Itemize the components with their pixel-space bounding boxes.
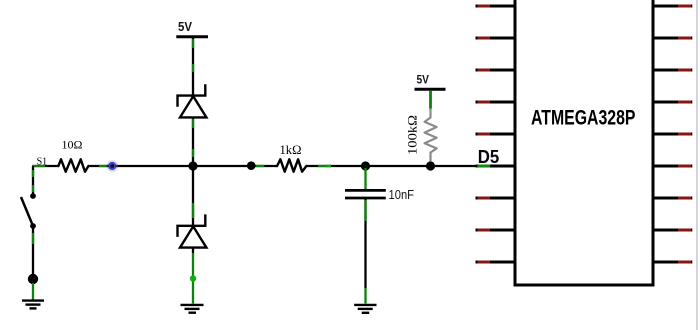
- wire: green dash on switch top pin: [32, 170, 34, 177]
- junction A: node dot on main wire at diode branch: [188, 161, 197, 170]
- switch S1: [21, 193, 36, 229]
- window edge / scrollbar line at right: [696, 0, 698, 330]
- junction: bendpoint dot above switch ground: [28, 274, 38, 284]
- wire: green pin segment right of junction B: [256, 165, 265, 167]
- svg-text:10Ω: 10Ω: [62, 138, 83, 152]
- wire: green pin below top diode: [192, 119, 194, 128]
- wire: junction A down to bottom diode: [192, 166, 194, 226]
- wire: green pin segment after 10ohm resistor: [99, 165, 108, 167]
- wire: green pin below pull-up 5V bar: [429, 91, 432, 109]
- junction B: bendpoint dot left of 1k resistor: [247, 161, 256, 170]
- wire: vertical drop from corner to switch S1: [32, 166, 34, 196]
- diode D1 top clamp (zener, cathode up): [178, 84, 207, 117]
- wire: green pin above top diode: [192, 64, 194, 72]
- wire: bottom diode to ground (mostly green): [192, 248, 194, 253]
- IC U1 ATMEGA328P body: [515, 0, 653, 285]
- junction D: node dot where pull-up meets main wire: [426, 161, 435, 170]
- wire: green pin of switch ground: [32, 283, 34, 300]
- ground: diode branch ground symbol: [181, 305, 204, 313]
- ground: capacitor ground symbol: [354, 305, 376, 313]
- svg-text:D5: D5: [478, 146, 500, 167]
- wire: top diode to junction A: [192, 117, 194, 166]
- wire: junction C down to capacitor (green): [364, 168, 366, 189]
- wire: capacitor to ground: [364, 198, 366, 288]
- wire: 1k resistor to MCU pin: [306, 165, 476, 167]
- resistor 10ohm: [58, 159, 88, 171]
- junction: green bendpoint on diode ground wire: [190, 275, 196, 281]
- junction: small green bendpoint after 1k resistor: [327, 165, 332, 168]
- wire: green pin below capacitor: [364, 200, 366, 221]
- svg-text:S1: S1: [37, 156, 48, 167]
- resistor 100kohm pull-up (grey): [425, 109, 437, 165]
- wire: corner to 10ohm resistor: [33, 165, 58, 167]
- wire: green switch pin segment at corner: [32, 165, 45, 167]
- svg-text:5V: 5V: [417, 73, 430, 87]
- pin D5 (connected, green tip): [476, 165, 516, 168]
- svg-text:ATMEGA328P: ATMEGA328P: [531, 106, 636, 130]
- wire: green pin below 5V bar: [192, 39, 194, 48]
- wire: green dash below switch: [32, 233, 34, 244]
- svg-text:100kΩ: 100kΩ: [405, 115, 420, 155]
- diode D2 bottom clamp (zener, cathode up): [178, 214, 207, 247]
- capacitor 10nF: [345, 190, 386, 198]
- wire: green dash above junction A: [192, 149, 194, 157]
- power +5V (pull-up branch): [415, 73, 446, 90]
- svg-text:10nF: 10nF: [389, 187, 415, 202]
- power +5V (diode clamp branch): [176, 19, 208, 37]
- wire: switch bottom to ground bendpoint: [32, 226, 34, 279]
- pins: right side of IC (unconnected, red tips): [653, 6, 692, 262]
- junction: blue selected bendpoint: [106, 160, 118, 172]
- resistor 1kohm: [277, 159, 306, 171]
- svg-text:5V: 5V: [178, 19, 192, 34]
- wire: green dash on switch top pin 2: [32, 185, 34, 192]
- wire: green pin segment right of 1k resistor: [318, 165, 331, 167]
- svg-text:1kΩ: 1kΩ: [280, 143, 302, 157]
- junction C: node dot at capacitor tap: [361, 161, 370, 170]
- pins: left side of IC (unconnected, red tips): [476, 6, 516, 262]
- wire: 5V bar to top diode: [192, 37, 194, 96]
- wire: green pin above bottom diode: [192, 203, 194, 218]
- wire: 10ohm resistor to junction B: [88, 165, 251, 167]
- wire: green pin of cap ground: [364, 288, 366, 304]
- ground: switch ground symbol: [22, 301, 44, 309]
- wire: junction B to 1k resistor: [251, 165, 277, 167]
